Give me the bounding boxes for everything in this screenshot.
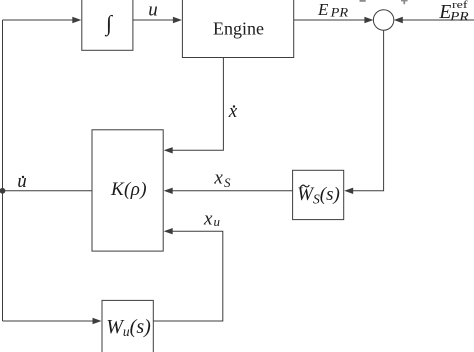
arrowhead x_S into K block [164, 188, 173, 194]
arrowhead into integrator [72, 17, 81, 23]
label: Ws(s) with tilde [297, 184, 340, 207]
wire: left feedback vertical (u-dot bus) [2, 20, 4, 321]
weighting block Ws [293, 170, 344, 219]
wire: E_PR ref from right edge to summing junction [401, 19, 474, 21]
arrowhead into Wu block [93, 318, 102, 324]
label: x_u [203, 209, 221, 230]
wire: x-dot from Engine bottom to K block [171, 58, 223, 151]
label: E_PR [317, 0, 348, 19]
minus sign at summing junction (cropped) [360, 0, 366, 2]
svg-text:PR: PR [330, 4, 349, 19]
wire: K output to left bus [3, 190, 93, 192]
svg-text:PR: PR [449, 8, 469, 23]
arrowhead into summing junction right [394, 17, 403, 23]
integrator block [82, 0, 133, 50]
svg-text:WS(s): WS(s) [297, 184, 340, 207]
summing junction circle [373, 10, 393, 30]
label: E_PR ref [438, 0, 468, 23]
svg-text:x: x [213, 168, 223, 189]
wire: x_S from Ws block to K block [171, 190, 293, 192]
weighting block Wu [102, 300, 153, 352]
svg-text:x: x [203, 209, 213, 230]
arrowhead x-dot into K block [164, 147, 173, 153]
wire: x_u from Wu block up to K block [153, 231, 223, 321]
svg-text:x: x [228, 101, 238, 122]
svg-text:S: S [224, 175, 231, 190]
arrowhead into summing junction left [364, 17, 373, 23]
svg-text:K(ρ): K(ρ) [110, 179, 147, 200]
svg-text:u: u [214, 214, 221, 229]
svg-text:Wu(s): Wu(s) [106, 316, 151, 339]
arrowhead into Ws block [344, 188, 353, 194]
junction dot on left bus [0, 188, 5, 194]
arrowhead x_u into K block [164, 228, 173, 234]
label: x-dot [228, 101, 238, 122]
arrowhead into Engine [173, 17, 182, 23]
svg-text:u: u [148, 0, 158, 20]
controller block K(rho) [92, 130, 163, 251]
label: x_S [213, 168, 231, 190]
svg-text:E: E [317, 0, 329, 19]
svg-text:u: u [17, 171, 27, 192]
wire: summing junction output down and left to Ws block [351, 30, 384, 191]
plus sign at summing junction (cropped) [401, 0, 408, 1]
wire: E_PR from Engine to summing junction [294, 19, 366, 21]
label: u-dot [17, 171, 27, 192]
svg-text:∫: ∫ [104, 11, 114, 37]
wire: bottom bus to Wu block [3, 320, 94, 322]
wire: u-dot to integrator input [3, 19, 75, 21]
wire: u from integrator to Engine [133, 19, 175, 21]
Engine block [182, 0, 293, 58]
svg-text:Engine: Engine [213, 19, 264, 39]
